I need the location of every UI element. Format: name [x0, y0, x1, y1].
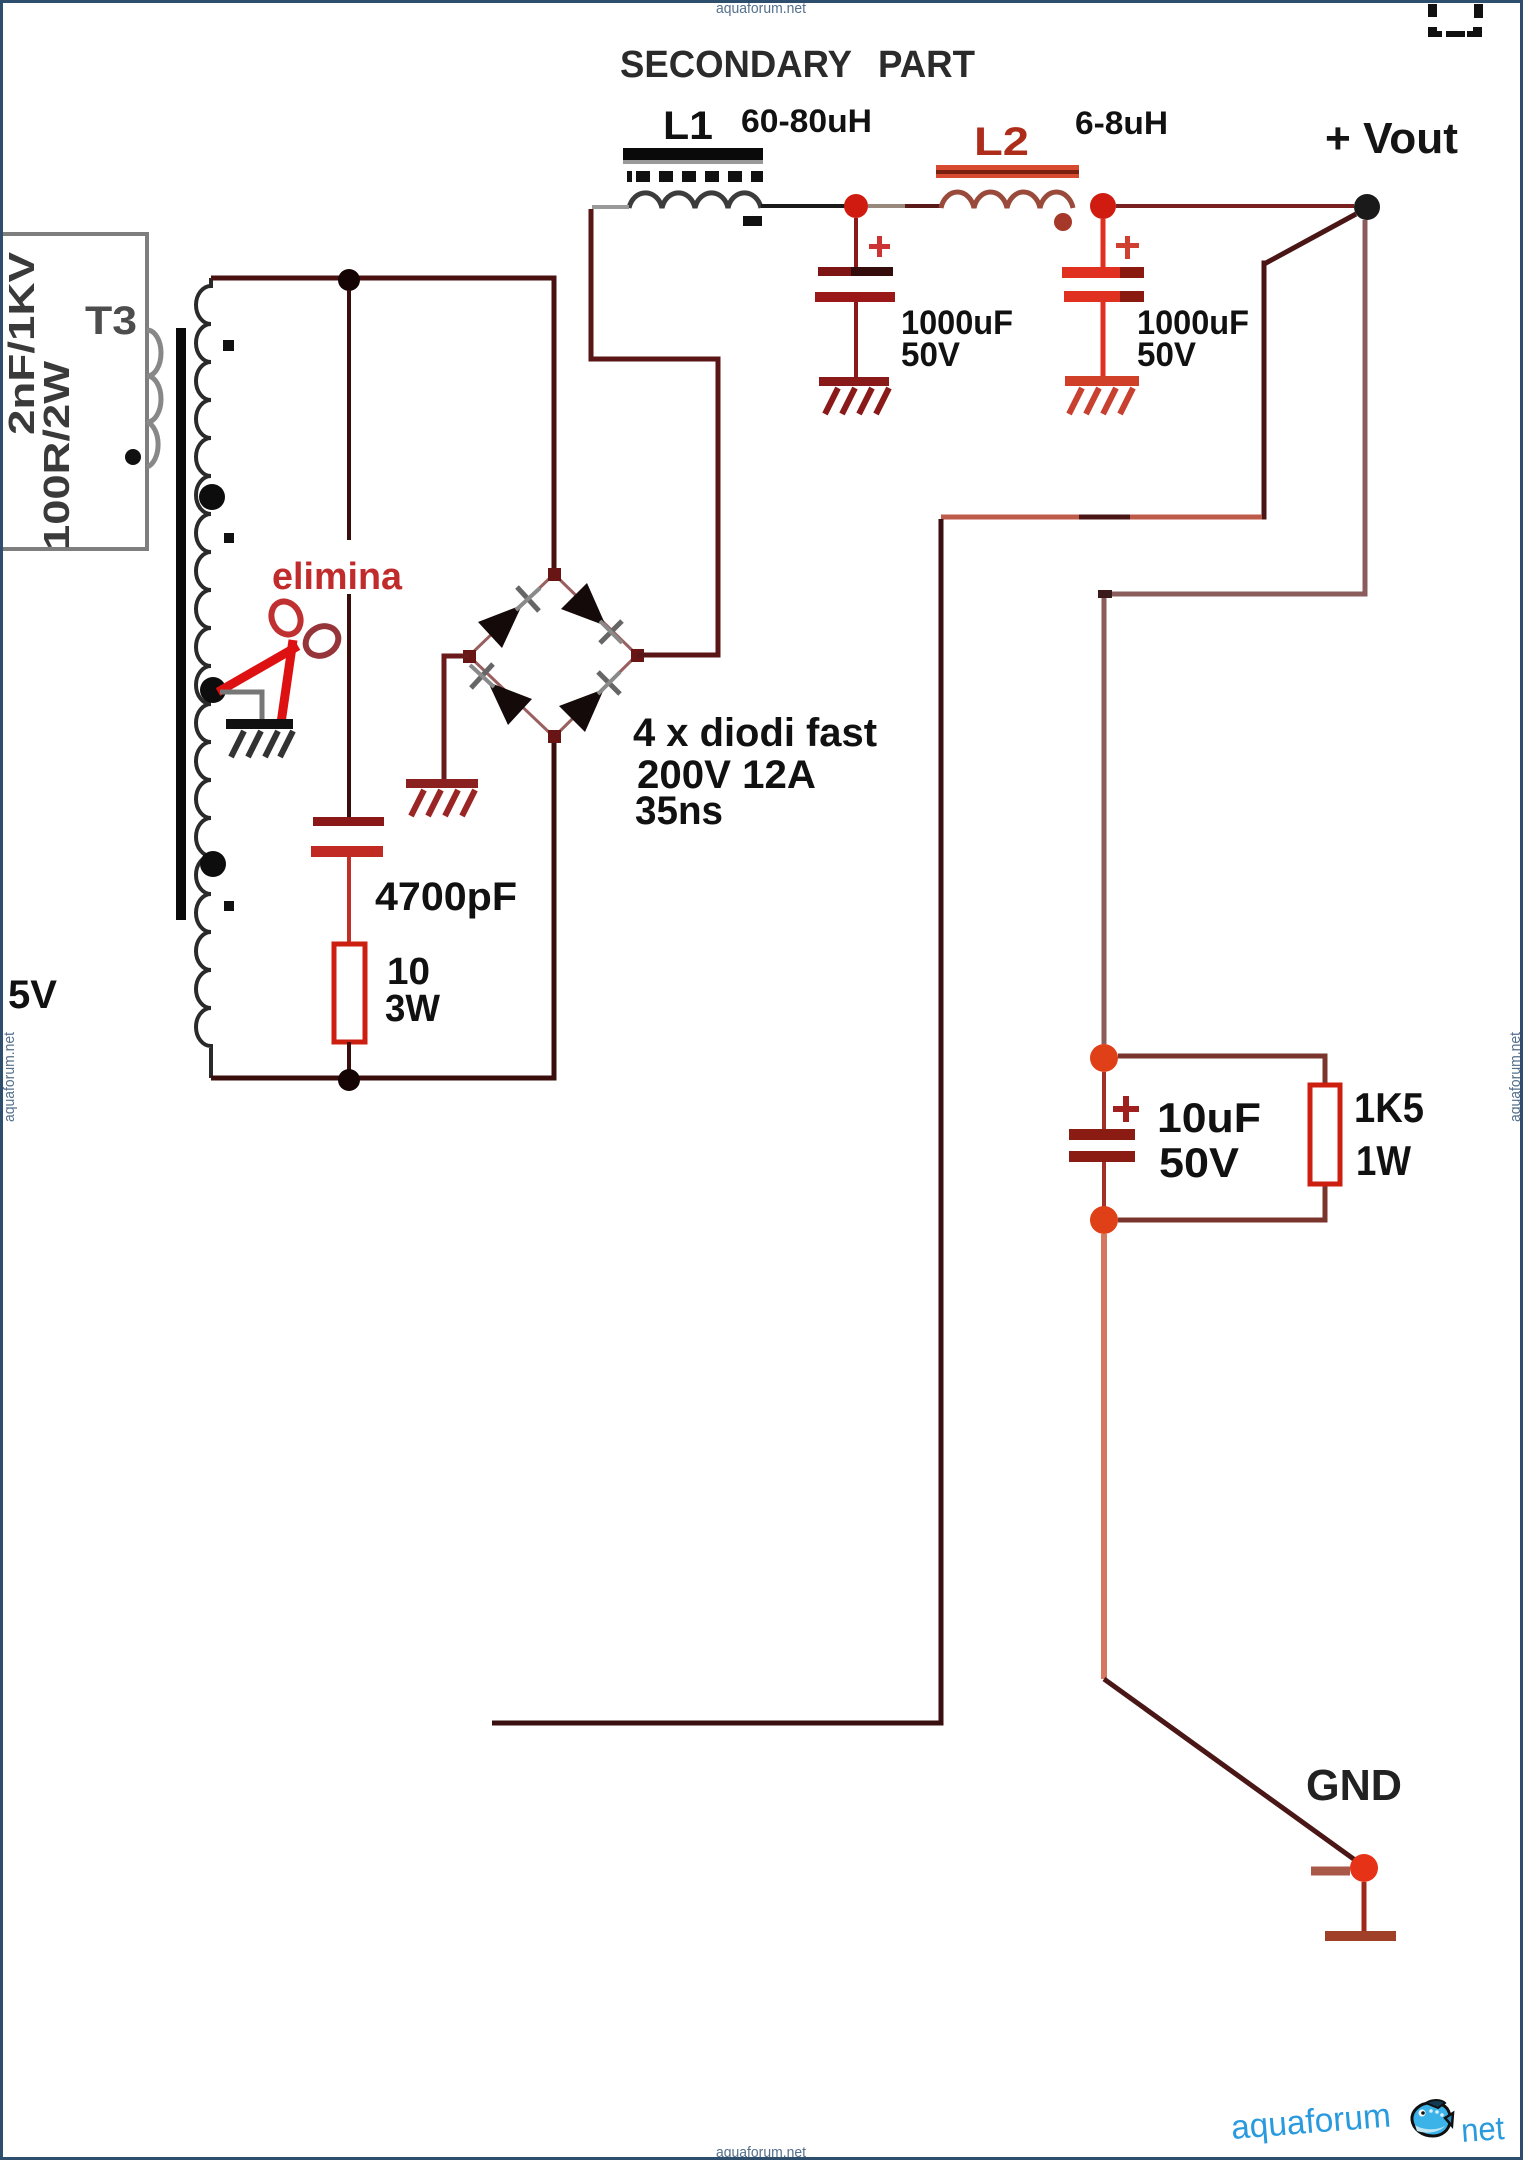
capacitor C1 1000uF: [815, 218, 895, 378]
wire left sense rail down: [492, 519, 941, 1723]
svg-text:T3: T3: [85, 299, 137, 343]
node GND (red): [1350, 1854, 1378, 1882]
secondary tap dot small 3: [224, 901, 234, 911]
svg-text:5V: 5V: [8, 973, 57, 1017]
svg-text:SECONDARY: SECONDARY: [620, 44, 852, 86]
svg-text:10: 10: [387, 951, 430, 993]
primary polarity dot: [125, 449, 141, 465]
svg-text:+ Vout: + Vout: [1325, 114, 1458, 163]
wire bridge left to ground: [444, 656, 469, 780]
transformer T3 primary winding: [147, 330, 161, 467]
secondary tap dot big 2: [200, 677, 226, 703]
ground (C1, dark red): [819, 377, 889, 414]
diode D3 (bottom-left): [470, 664, 532, 725]
ground symbol GND: [1325, 1882, 1396, 1941]
svg-text:1K5: 1K5: [1354, 1084, 1424, 1131]
title SECONDARY PART: [620, 44, 975, 86]
svg-text:6-8uH: 6-8uH: [1075, 105, 1168, 141]
selection icon top right: [1428, 4, 1483, 37]
wire GND diagonal: [1104, 1679, 1355, 1860]
logo fish icon: [1412, 2100, 1453, 2136]
svg-text:4700pF: 4700pF: [375, 875, 517, 919]
wire top secondary to bridge top: [211, 278, 554, 574]
svg-text:50V: 50V: [901, 336, 960, 374]
svg-text:GND: GND: [1306, 1761, 1402, 1810]
resistor 10 3W: [334, 944, 365, 1042]
svg-text:elimina: elimina: [272, 556, 403, 598]
wire junction to Vout: [1116, 204, 1354, 208]
svg-text:35ns: 35ns: [635, 789, 723, 833]
svg-text:60-80uH: 60-80uH: [741, 103, 872, 139]
node junction L1/C out (red): [844, 194, 868, 218]
wire to GND (salmon): [1101, 1234, 1107, 1679]
node junction L2 out (red): [1090, 193, 1116, 219]
capacitor C3 10uF: [1069, 1072, 1139, 1208]
wire junction to 1K5 top: [1118, 1056, 1325, 1085]
svg-text:L1: L1: [663, 104, 713, 148]
wire junction to L2: [868, 204, 905, 208]
wire bottom rail: [211, 737, 554, 1078]
wire L1 left stub: [592, 205, 629, 209]
svg-text:3W: 3W: [385, 988, 440, 1030]
resistor 1K5 1W: [1310, 1085, 1340, 1184]
inductor L2: [936, 165, 1079, 208]
wire elimina branch upper: [347, 290, 351, 540]
secondary tap dot small 2: [224, 533, 234, 543]
node junction top (elimina tap): [338, 269, 360, 291]
node Vout (black): [1354, 194, 1380, 220]
capacitor C 4700pF: [311, 817, 384, 857]
wire Vout down rail (mauve): [1104, 220, 1365, 1044]
GND left stub: [1311, 1867, 1350, 1876]
diode D4 (bottom-right): [559, 672, 620, 732]
svg-text:100R/2W: 100R/2W: [36, 361, 77, 550]
svg-text:aquaforum: aquaforum: [1230, 2097, 1392, 2147]
ground (C2, red): [1065, 376, 1139, 414]
transformer T3 secondary winding: [196, 278, 211, 1078]
secondary tap dot big 1: [199, 484, 225, 510]
node junction 10uF top: [1090, 1044, 1118, 1072]
wire stub to cut ground: [220, 692, 262, 719]
svg-text:10uF: 10uF: [1157, 1094, 1261, 1141]
node junction 10uF bottom: [1090, 1206, 1118, 1234]
wire resistor to bottom rail: [347, 1042, 351, 1078]
transformer T3 box: [0, 234, 147, 549]
capacitor C2 1000uF: [1062, 219, 1144, 377]
node corner blob: [1098, 590, 1112, 598]
scissors icon: [218, 597, 344, 723]
node junction bottom: [338, 1069, 360, 1091]
diode D2 (top-right): [561, 583, 622, 643]
wire red overlay segment: [941, 515, 1079, 520]
svg-text:net: net: [1460, 2109, 1505, 2149]
L2 polarity dot: [1054, 213, 1072, 231]
inductor L1: [623, 148, 763, 208]
wire L1 right stub: [761, 204, 846, 208]
L1 polarity mark: [743, 216, 762, 226]
wire elimina branch lower: [347, 594, 351, 818]
wire junction to 1K5 bottom: [1118, 1184, 1325, 1220]
ground (cut, black): [226, 719, 293, 757]
diode D1 (left-top): [478, 587, 540, 648]
svg-text:50V: 50V: [1137, 336, 1196, 374]
wire bridge right to L1 input: [591, 209, 718, 655]
diode bridge edges: [469, 574, 637, 737]
wire cap to resistor: [347, 857, 351, 946]
ground (bridge, dark red): [406, 779, 478, 816]
secondary tap dot big 3: [200, 851, 226, 877]
svg-text:50V: 50V: [1159, 1139, 1239, 1186]
secondary tap dot small 1: [223, 340, 234, 351]
svg-text:L2: L2: [974, 120, 1029, 164]
svg-text:PART: PART: [878, 44, 975, 86]
transformer core: [176, 328, 186, 920]
svg-text:aquaforum.net: aquaforum.net: [1, 1031, 18, 1122]
svg-text:1W: 1W: [1356, 1137, 1411, 1184]
wire Vout feedback diagonal: [941, 214, 1356, 517]
svg-text:4 x diodi fast: 4 x diodi fast: [633, 711, 877, 755]
bridge corner nodes: [463, 568, 644, 743]
